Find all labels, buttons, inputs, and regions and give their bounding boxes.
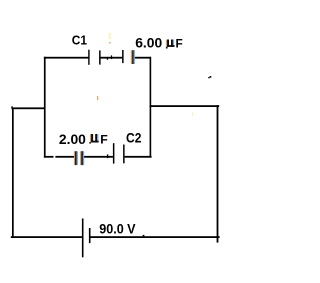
wire bottom left (to battery long plate) — [11, 236, 82, 238]
stray dark check mark upper right — [208, 77, 210, 78]
nub on bottom wire after 90.0 V — [143, 235, 145, 236]
node nub at left connector corner — [11, 106, 12, 107]
wire bottom branch right (to right node) — [125, 156, 152, 158]
battery short plate (negative) — [89, 228, 91, 243]
mu glyph of 6.00 uF — [166, 40, 175, 49]
wire inner-left vertical — [44, 57, 46, 158]
svg-text:2.00: 2.00 — [59, 132, 86, 147]
svg-text:F: F — [176, 36, 183, 50]
svg-text:F: F — [100, 133, 108, 147]
wire right connector (inner box to outer loop) — [150, 105, 220, 107]
wire top branch left (node to C1 plate) — [44, 57, 89, 59]
wire left connector (outer loop to inner box) — [11, 107, 45, 109]
wire inner-right vertical — [150, 57, 152, 158]
wire outer-left vertical — [12, 107, 14, 237]
stray orange mark near left node — [97, 96, 98, 100]
capacitor C1 left plate — [88, 50, 89, 65]
wire bottom branch left segment 1 — [44, 156, 54, 158]
stray faint yellow dot right side — [192, 112, 193, 116]
svg-text:C1: C1 — [72, 32, 87, 47]
mu glyph of 2.00 uF — [89, 134, 98, 144]
stray yellow mark — [109, 33, 110, 39]
svg-text:C2: C2 — [126, 130, 142, 145]
6.00uF capacitor left plate — [122, 50, 124, 63]
2.00uF capacitor left plate (cleartype colored) — [74, 151, 78, 165]
wire top branch middle (C1 to 6uF cap) — [101, 57, 123, 59]
junction tick b on top middle wire — [111, 55, 112, 59]
wire bottom right (battery to right corner) — [91, 236, 220, 238]
wire outer-right vertical — [217, 105, 219, 242]
capacitor C2 left plate — [113, 143, 115, 163]
6.00uF capacitor right plate (cleartype colored) — [131, 50, 135, 64]
2.00uF capacitor right plate (cleartype colored) — [80, 151, 84, 165]
svg-text:90.0 V: 90.0 V — [99, 222, 136, 237]
capacitor C1 right plate — [99, 50, 101, 64]
wire top branch right (to right node) — [135, 57, 151, 59]
svg-text:6.00: 6.00 — [135, 35, 162, 51]
stray orange dot — [109, 42, 110, 44]
battery long plate (positive) — [82, 219, 84, 258]
wire bottom branch middle (2uF cap to C2) — [84, 156, 113, 158]
junction tick a on top middle wire — [107, 57, 108, 59]
wire bottom branch left segment 2 — [55, 156, 74, 158]
junction diamond on bottom middle wire — [107, 154, 108, 158]
capacitor C2 right plate — [123, 145, 125, 164]
